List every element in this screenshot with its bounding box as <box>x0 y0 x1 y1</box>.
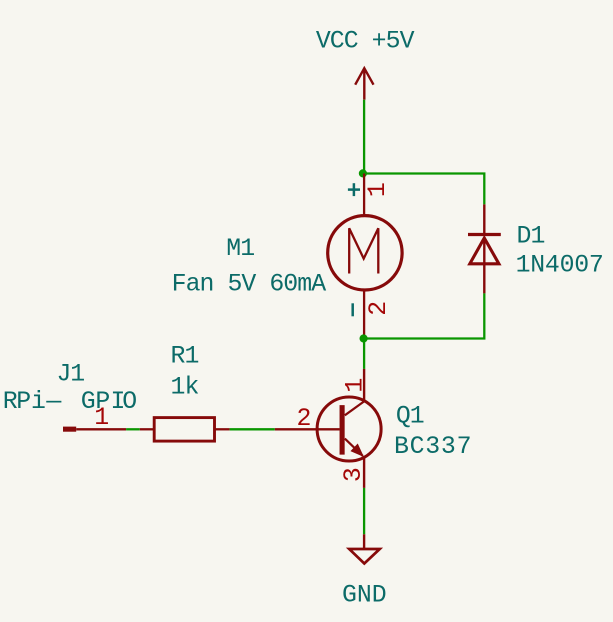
svg-text:3: 3 <box>340 467 368 482</box>
diode D1 cathode bar <box>468 233 501 236</box>
svg-text:VCC +5V: VCC +5V <box>316 27 415 55</box>
transistor Q1 emitter pin <box>363 456 365 488</box>
svg-text:2: 2 <box>297 405 312 433</box>
svg-text:1N4007: 1N4007 <box>516 252 604 280</box>
wire junction B to Q1 collector <box>363 339 365 369</box>
resistor R1 left pin <box>140 428 154 430</box>
wire diode bottom to junction B <box>364 293 485 338</box>
svg-text:M1: M1 <box>226 235 254 263</box>
transistor Q1 base bar <box>340 405 345 455</box>
svg-text:D1: D1 <box>517 223 545 251</box>
junction A <box>359 169 367 177</box>
transistor Q1 emitter diagonal <box>345 439 363 456</box>
resistor R1 right pin <box>215 428 230 430</box>
wire junction A to diode top corner <box>364 174 484 205</box>
resistor R1 body <box>154 418 214 442</box>
wire VCC to junction A <box>363 100 365 174</box>
motor M1 pin 1 wire <box>363 174 365 215</box>
motor M1 pin 2 wire <box>363 291 365 335</box>
svg-text:GND: GND <box>342 582 387 610</box>
svg-text:Q1: Q1 <box>396 403 424 431</box>
transistor Q1 collector diagonal <box>345 401 364 415</box>
wire Q1 emitter to GND <box>363 488 365 534</box>
junction B <box>360 334 368 342</box>
diode D1 triangle <box>470 238 499 264</box>
label - (motor minus, rotated) <box>351 303 354 316</box>
ground symbol <box>349 549 380 564</box>
connector J1 pin 1 <box>76 428 126 430</box>
transistor Q1 collector pin <box>363 369 365 402</box>
power symbol VCC arrow <box>355 68 373 100</box>
svg-text:J1: J1 <box>57 360 85 388</box>
wire R1 to Q1 base <box>230 428 275 430</box>
svg-text:1k: 1k <box>171 374 199 402</box>
svg-text:Fan 5V 60mA: Fan 5V 60mA <box>172 271 327 299</box>
svg-text:R1: R1 <box>171 343 199 371</box>
svg-text:1: 1 <box>364 182 392 197</box>
motor M1 body <box>328 216 402 290</box>
ground pin stub <box>363 534 365 549</box>
svg-text:2: 2 <box>365 301 393 316</box>
label + (motor plus) <box>348 183 360 196</box>
diode D1 anode pin (through triangle) <box>483 238 485 293</box>
transistor Q1 emitter arrow <box>351 444 363 456</box>
svg-text:BC337: BC337 <box>394 433 472 461</box>
transistor Q1 base pin <box>275 428 340 430</box>
diode D1 top pin <box>483 204 485 234</box>
transistor Q1 body circle <box>317 397 381 461</box>
wire J1 to R1 <box>126 428 140 430</box>
connector J1 body <box>63 427 76 432</box>
motor M glyph <box>349 228 378 273</box>
